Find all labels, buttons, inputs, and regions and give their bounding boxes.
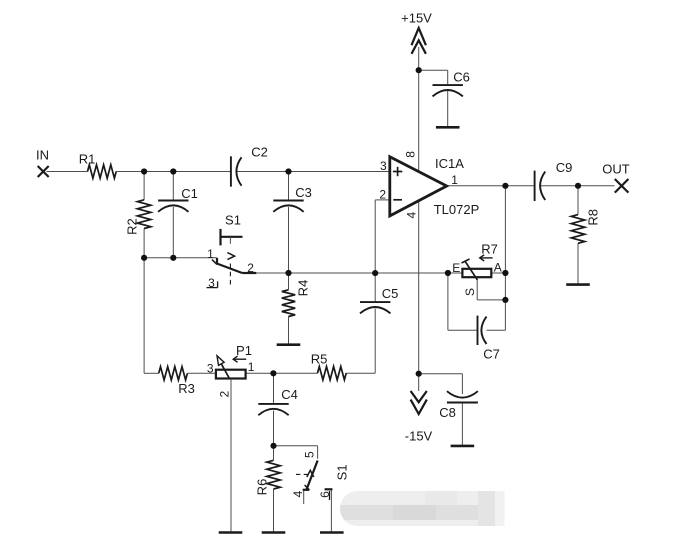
svg-text:P1: P1 <box>236 343 252 358</box>
svg-text:C7: C7 <box>483 347 500 362</box>
svg-text:R7: R7 <box>481 242 498 257</box>
svg-text:TL072P: TL072P <box>434 202 480 217</box>
svg-text:1: 1 <box>248 360 255 374</box>
svg-text:4: 4 <box>404 211 418 218</box>
svg-text:IN: IN <box>36 148 49 163</box>
svg-text:4: 4 <box>291 490 305 497</box>
svg-text:R2: R2 <box>125 218 140 235</box>
svg-text:R5: R5 <box>311 352 328 367</box>
svg-text:C2: C2 <box>251 145 268 160</box>
svg-text:C9: C9 <box>556 160 573 175</box>
svg-text:S: S <box>463 288 477 296</box>
svg-text:R1: R1 <box>79 152 96 167</box>
svg-text:R3: R3 <box>178 381 195 396</box>
svg-text:C8: C8 <box>439 405 456 420</box>
svg-text:S1: S1 <box>335 464 350 480</box>
svg-text:OUT: OUT <box>602 162 630 177</box>
svg-text:6: 6 <box>318 491 332 498</box>
svg-text:S1: S1 <box>225 213 241 228</box>
svg-text:R4: R4 <box>296 280 311 297</box>
svg-text:3: 3 <box>380 159 387 173</box>
svg-text:C6: C6 <box>453 70 470 85</box>
svg-text:+15V: +15V <box>401 11 432 26</box>
svg-text:8: 8 <box>404 151 418 158</box>
svg-text:1: 1 <box>207 247 214 261</box>
svg-text:5: 5 <box>302 451 316 458</box>
svg-text:3: 3 <box>208 276 215 290</box>
svg-text:IC1A: IC1A <box>435 156 464 171</box>
svg-text:3: 3 <box>207 361 214 375</box>
svg-text:1: 1 <box>451 173 458 187</box>
svg-text:C4: C4 <box>281 387 298 402</box>
svg-text:C3: C3 <box>295 185 312 200</box>
svg-text:R8: R8 <box>586 209 601 226</box>
svg-text:2: 2 <box>379 187 386 201</box>
svg-text:2: 2 <box>217 390 231 397</box>
svg-text:2: 2 <box>247 261 254 275</box>
svg-text:C5: C5 <box>382 286 399 301</box>
svg-text:R6: R6 <box>255 479 270 496</box>
svg-text:E: E <box>452 261 460 275</box>
svg-text:-15V: -15V <box>405 429 433 444</box>
svg-text:A: A <box>494 260 502 274</box>
svg-text:C1: C1 <box>181 186 198 201</box>
